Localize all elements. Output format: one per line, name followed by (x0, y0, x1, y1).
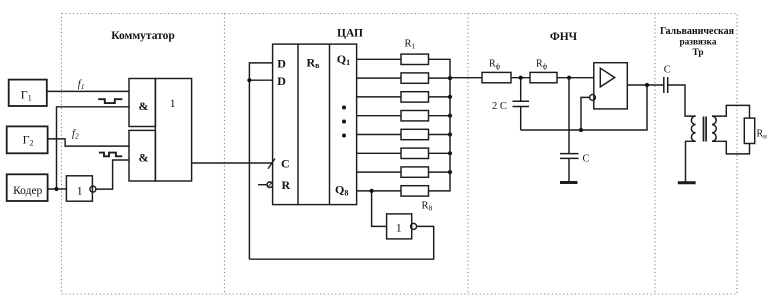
ground filter (560, 181, 578, 184)
transformer secondary winding (712, 116, 716, 141)
wire R1 to bus (429, 59, 451, 78)
wire Rf1 to Rf2 (511, 77, 530, 79)
dots Q column (342, 106, 346, 110)
svg-text:1: 1 (77, 184, 83, 198)
waveform symbol top (98, 99, 122, 103)
wire R3 to bus (429, 96, 451, 98)
svg-text:Гальваническая: Гальваническая (660, 26, 735, 37)
wire R6 to bus (429, 152, 451, 154)
wire inverter to bottom AND input (96, 160, 129, 189)
inverter 1 box (commutator) (66, 176, 92, 201)
wire C to ground (568, 158, 570, 181)
section divider ЦАП/ФНЧ (467, 14, 469, 295)
OR gate 1 box (155, 79, 191, 182)
wire Q2 (357, 77, 401, 79)
svg-text:&: & (139, 151, 149, 165)
svg-text:2 C: 2 C (492, 101, 507, 112)
AND gate bottom box (129, 130, 155, 181)
wire filter feedback line (521, 85, 647, 130)
DAC divider 2 (329, 44, 331, 205)
R circle slash (268, 182, 272, 187)
wire D2 input (249, 79, 272, 81)
wire secondary top to load (712, 105, 750, 118)
resistor R1 (401, 54, 429, 64)
wire DAC bus to filter (450, 77, 482, 79)
DAC register block (273, 44, 357, 205)
wire Q8 (357, 190, 401, 192)
wire Q5 (357, 134, 401, 136)
capacitor C branch (568, 78, 570, 154)
wire R4 to bus (429, 115, 451, 117)
capacitor 2C branch (520, 78, 522, 102)
wire load bottom to secondary (712, 141, 750, 154)
wire op-amp output (627, 84, 664, 86)
wire primary bottom to ground (686, 141, 696, 181)
node bus R2 (448, 76, 452, 80)
node coder junction (54, 187, 58, 191)
wire Q1 (357, 58, 401, 60)
wire Q6 (357, 152, 401, 154)
wire Q4 (357, 115, 401, 117)
wire Q3 (357, 96, 401, 98)
wire feedback to D bus (249, 226, 433, 259)
resistor Rf1 (482, 72, 511, 82)
svg-text:развязка: развязка (679, 38, 716, 48)
capacitor C series plates (663, 77, 665, 93)
wire R7 to bus (429, 171, 451, 173)
wire commutator output to C input (192, 162, 273, 164)
resistor R6 (401, 148, 429, 158)
resistor R5 (401, 129, 429, 139)
resistor R4 (401, 111, 429, 121)
svg-text:R: R (282, 178, 291, 192)
svg-text:C: C (281, 156, 290, 170)
resistor R8 (401, 186, 429, 196)
svg-text:C: C (583, 154, 590, 165)
coder box (7, 174, 48, 201)
node Q8 junction (370, 189, 374, 193)
wire inverting input (581, 97, 590, 130)
wire Q7 (357, 171, 401, 173)
AND gate top box (129, 79, 155, 127)
svg-text:1: 1 (170, 98, 176, 110)
svg-text:D: D (277, 57, 286, 71)
op-amp U1 box (594, 63, 628, 109)
resistor R7 (401, 167, 429, 177)
svg-text:D: D (277, 74, 286, 88)
ground transformer (678, 181, 696, 184)
node A junction (519, 76, 523, 80)
svg-text:ЦАП: ЦАП (337, 28, 363, 40)
R input stub (258, 184, 267, 186)
resistor Rn load (744, 118, 754, 143)
node bus R5 (448, 132, 452, 136)
wire cap to transformer (668, 85, 696, 116)
inverter 2 output circle (411, 223, 417, 229)
transformer core lines (703, 117, 705, 142)
section divider ФНЧ/развязка (654, 14, 656, 295)
inverter output circle (90, 186, 96, 192)
DAC divider 1 (297, 44, 299, 205)
svg-text:Тр: Тр (692, 48, 703, 58)
node bus R3 (448, 95, 452, 99)
wire Q8 to inverter 2 (372, 191, 387, 227)
node output junction (645, 83, 649, 87)
node bus R4 (448, 114, 452, 118)
svg-text:C: C (664, 65, 671, 76)
wire D1 input (249, 63, 272, 259)
wire f2 with jog (48, 139, 130, 146)
capacitor 2C plates (513, 100, 530, 102)
svg-text:ФНЧ: ФНЧ (550, 31, 578, 43)
wire R2 to bus (429, 77, 451, 79)
wire R5 to bus (429, 134, 451, 136)
inverter 1 box (DAC feedback) (387, 214, 412, 239)
capacitor C plates (560, 153, 579, 155)
node bus R6 (448, 151, 452, 155)
wire coder to inverter (57, 188, 68, 190)
svg-text:Кодер: Кодер (13, 185, 42, 197)
R input circle (267, 182, 273, 188)
svg-text:&: & (139, 99, 149, 113)
wire f1 (46, 90, 129, 92)
C input slash (268, 159, 275, 169)
resistor R2 (401, 73, 429, 83)
section divider Коммутатор/ЦАП (224, 14, 226, 295)
resistor R3 (401, 92, 429, 102)
node B junction (567, 76, 571, 80)
node bus R7 (448, 170, 452, 174)
wire coder to top AND input (48, 107, 130, 189)
generator Г2 box (7, 126, 48, 153)
wire R8 to bus (429, 78, 451, 191)
resistor Rf2 (530, 72, 557, 82)
op-amp inverting circle (590, 95, 596, 101)
op-amp triangle (600, 68, 614, 87)
generator Г1 box (9, 80, 47, 106)
wire Rf2 to op-amp (557, 77, 594, 79)
node D junction (247, 78, 251, 82)
transformer primary winding (691, 116, 695, 141)
waveform symbol bottom (99, 153, 122, 157)
svg-text:1: 1 (396, 221, 402, 235)
wire 2C to feedback (520, 107, 522, 131)
svg-text:Коммутатор: Коммутатор (111, 30, 175, 42)
node feedback junction (579, 128, 583, 132)
